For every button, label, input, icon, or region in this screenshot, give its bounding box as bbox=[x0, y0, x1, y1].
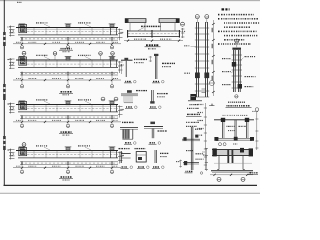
notes text lines bbox=[218, 14, 219, 16]
detail section I (vertical plate) bbox=[152, 150, 168, 169]
dimension line bbox=[13, 167, 121, 169]
column cap x=68 bbox=[66, 101, 71, 105]
left frame border bbox=[3, 0, 5, 185]
beam end connection block bbox=[19, 57, 27, 65]
grid axis bubbles bbox=[21, 165, 23, 170]
beam elevation GL-2 bbox=[8, 55, 124, 94]
title bbox=[250, 172, 258, 174]
column cap x=22 bbox=[20, 147, 25, 151]
lower chord bbox=[216, 138, 252, 140]
detail section D (vertical bar) bbox=[149, 90, 168, 108]
column cap x=112 bbox=[110, 24, 115, 28]
column stub plates through grout bbox=[227, 150, 229, 163]
beam end connection block bbox=[19, 148, 27, 156]
detail section E (column stub with hatch block) bbox=[120, 122, 138, 144]
beam top flange bbox=[16, 27, 118, 29]
column tie ticks bbox=[195, 28, 209, 97]
right support column stub bbox=[110, 151, 112, 158]
beam elevation GL-3 bbox=[8, 100, 124, 135]
beam elevation GL-4 bbox=[8, 146, 125, 180]
beam top flange bbox=[16, 59, 118, 61]
more axis bubbles above row2 bbox=[53, 52, 57, 56]
side labels bbox=[222, 58, 231, 60]
grid axis bubbles bbox=[21, 76, 23, 85]
axis bubble above row4 bbox=[22, 143, 26, 147]
base block bbox=[190, 94, 196, 100]
right support column stub bbox=[110, 61, 112, 68]
detail section F (tee down) bbox=[144, 122, 167, 145]
base dim + bubbles bbox=[210, 174, 253, 176]
bottom flange plan strip bbox=[20, 37, 118, 39]
column cap x=22 bbox=[20, 24, 25, 28]
bottom flange plan strip bbox=[20, 161, 118, 163]
detail section C (plate with hatch) bbox=[121, 90, 147, 108]
right-side vertical dim bracket bbox=[182, 28, 184, 38]
column elevation Z-2 bbox=[222, 39, 256, 98]
beam end connection block bbox=[19, 102, 27, 110]
dimension line bbox=[13, 121, 121, 123]
beam top flange bbox=[16, 104, 118, 106]
beam end connection block bbox=[19, 25, 27, 33]
axis bubble bbox=[181, 22, 185, 26]
detail section H (small box section) bbox=[135, 149, 150, 169]
anchor bolt layout title bbox=[228, 101, 245, 103]
grid axis bubbles bbox=[21, 119, 23, 124]
beam bottom flange bbox=[18, 111, 118, 113]
top frame hairline bbox=[0, 0, 260, 2]
right dim chain bbox=[256, 112, 258, 150]
detail section A (tee with cap plate) bbox=[121, 58, 147, 83]
column cap x=112 bbox=[110, 101, 115, 105]
detail section G (angle bracket) bbox=[119, 149, 133, 169]
bottom flange plan strip bbox=[20, 115, 118, 117]
column elevation Z-1 bbox=[181, 15, 215, 127]
tie ticks bbox=[232, 55, 242, 88]
bottom page edge shadow bbox=[0, 192, 260, 194]
drawing title GL-2 bbox=[61, 91, 72, 93]
right support column stub bbox=[110, 28, 112, 35]
page background bbox=[0, 0, 260, 194]
column cap x=68 bbox=[66, 24, 71, 28]
plan band bbox=[127, 30, 180, 32]
title bbox=[186, 170, 193, 172]
beam bottom flange bbox=[18, 157, 118, 159]
anchor bolt legs bbox=[217, 156, 245, 170]
drawing title GL-3 bbox=[61, 131, 72, 133]
beam web dashed centreline bbox=[20, 31, 118, 33]
drawing title GL-1 bbox=[61, 48, 72, 50]
drawing title GL-4 bbox=[61, 176, 72, 178]
branch labels bbox=[186, 150, 193, 152]
tiny corner mark top-left bbox=[17, 1, 21, 3]
beam web dashed centreline bbox=[20, 154, 118, 156]
beam web dashed centreline bbox=[20, 63, 118, 65]
plan detail title bbox=[146, 44, 158, 46]
beam plan detail top-middle bbox=[124, 18, 185, 49]
dimension line bbox=[13, 43, 121, 45]
column cap x=68 bbox=[66, 57, 71, 61]
axis bubble above row2 bbox=[22, 51, 26, 55]
section cut bubble on dim chain bbox=[209, 81, 214, 86]
plan dimension line bbox=[124, 40, 183, 42]
right support column stub bbox=[110, 105, 112, 112]
bottom frame border bbox=[4, 184, 258, 186]
notes heading 说明 bbox=[222, 8, 230, 10]
beam bottom flange bbox=[18, 34, 118, 36]
centre post bbox=[234, 120, 236, 138]
anchor bolt bubbles above grout bar bbox=[219, 143, 222, 146]
axis bubbles above row3 bbox=[101, 97, 105, 101]
right dim chain bbox=[212, 20, 214, 96]
column cap x=112 bbox=[110, 147, 115, 151]
grid axis bubbles bbox=[21, 41, 23, 46]
beam elevation GL-1 bbox=[8, 23, 124, 52]
branch 1 bbox=[182, 138, 200, 140]
beam bottom flange bbox=[18, 66, 118, 68]
elevation mark left of title bbox=[209, 104, 215, 106]
detail section B (vertical plate) bbox=[149, 54, 175, 83]
branch 2 bbox=[183, 162, 199, 164]
column cap x=22 bbox=[20, 57, 25, 61]
right-side tick labels near base bbox=[202, 88, 206, 90]
beam top flange bbox=[16, 150, 118, 152]
left bracket bbox=[205, 148, 207, 171]
base plate line bbox=[211, 170, 253, 172]
bottom flange plan strip bbox=[20, 71, 118, 73]
dimension line bbox=[13, 79, 121, 81]
detail cross member with branches bbox=[176, 127, 204, 174]
base grout hatched bar bbox=[203, 148, 258, 182]
beam web dashed centreline bbox=[20, 108, 118, 110]
column footing labels bbox=[190, 104, 199, 106]
dimension chain left of anchor detail bbox=[198, 103, 208, 170]
column cap x=112 bbox=[110, 57, 115, 61]
beam connection blobs bbox=[195, 73, 200, 79]
column cap x=22 bbox=[20, 101, 25, 105]
section mark below column bbox=[235, 95, 238, 98]
portal frame detail right bbox=[214, 108, 259, 150]
column cap x=68 bbox=[66, 147, 71, 151]
